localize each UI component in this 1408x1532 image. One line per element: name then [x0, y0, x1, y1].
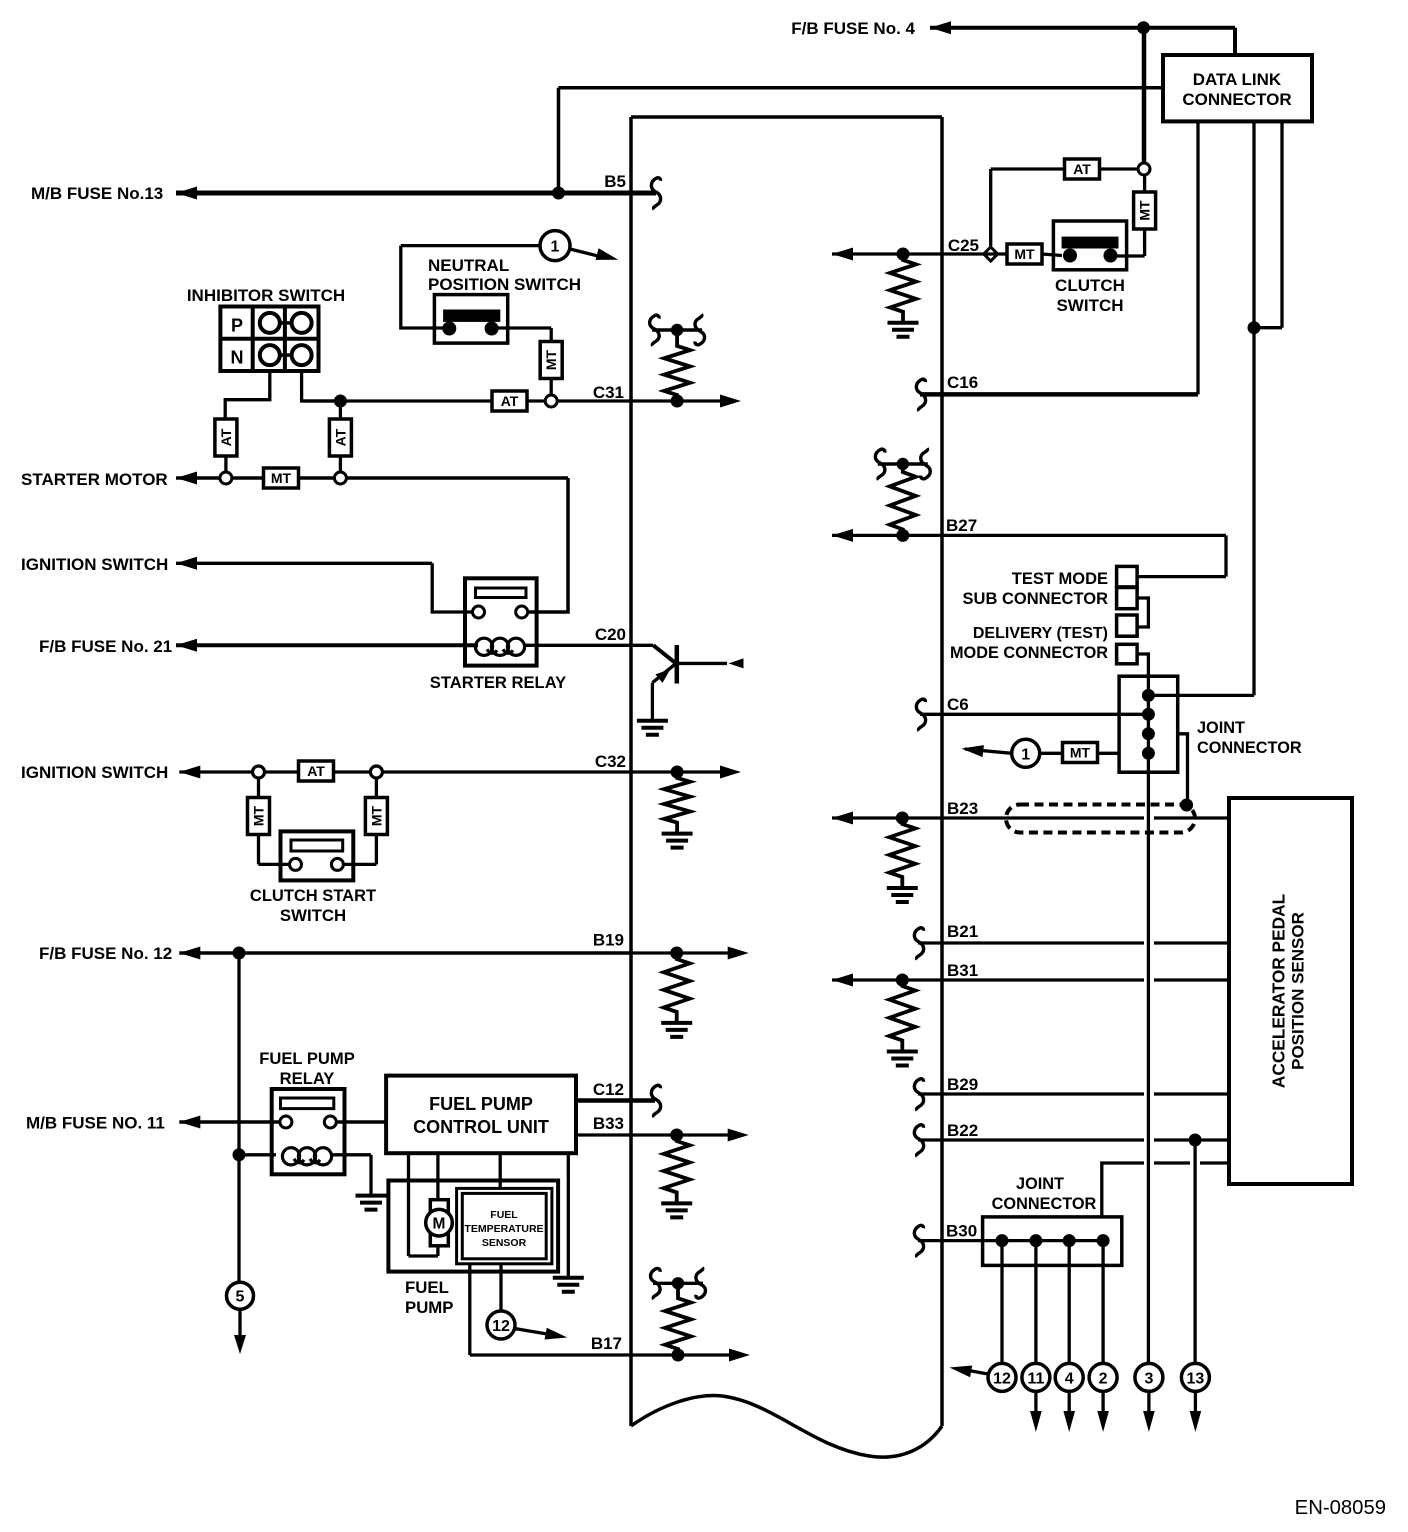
arrowhead circled-12 to ECM — [950, 1365, 973, 1377]
svg-text:B5: B5 — [604, 172, 626, 191]
wire to DATA LINK CONNECTOR — [559, 86, 1164, 90]
svg-text:3: 3 — [1144, 1370, 1153, 1387]
junction JC pin1 — [1142, 689, 1155, 702]
reference circle 3 — [1135, 1363, 1163, 1391]
connector break B21 — [914, 928, 923, 960]
wire fuse12 down to circled-5 — [237, 953, 240, 1282]
fuel pump relay contact bar — [281, 1098, 334, 1109]
junction B33 resistor — [670, 1129, 683, 1142]
wire C16 to DLC — [920, 392, 1198, 397]
ground transistor emitter — [637, 721, 668, 735]
DLC pin wire to C16 — [1196, 121, 1199, 394]
svg-text:TEST MODE: TEST MODE — [1012, 570, 1108, 588]
starter relay contact right — [516, 606, 528, 618]
ground B23 resistor — [887, 888, 918, 902]
svg-text:CONNECTOR: CONNECTOR — [992, 1195, 1097, 1213]
svg-text:FUEL: FUEL — [490, 1209, 518, 1221]
resistor C31 pull-up — [664, 330, 690, 401]
resistor C25 pull-down — [890, 254, 916, 322]
wire lower JC pin4 up — [1102, 1163, 1144, 1217]
wire to circled-2 — [1101, 1241, 1104, 1364]
joint connector (upper) box — [1119, 676, 1178, 772]
svg-text:DELIVERY (TEST): DELIVERY (TEST) — [973, 625, 1108, 642]
svg-text:C6: C6 — [947, 695, 969, 714]
svg-text:13: 13 — [1187, 1370, 1205, 1387]
arrowhead circled-13 — [1190, 1411, 1202, 1432]
wire down to C25 diamond — [989, 169, 992, 246]
svg-text:N: N — [231, 348, 244, 368]
wire down to AT — [339, 401, 342, 420]
svg-text:IGNITION SWITCH: IGNITION SWITCH — [21, 555, 168, 574]
svg-text:JOINT: JOINT — [1016, 1175, 1064, 1193]
arrowhead circled-3 — [1143, 1411, 1155, 1432]
arrowhead circled-1 (to ECM) — [595, 248, 618, 260]
wire to relay coil — [239, 1153, 276, 1156]
svg-text:11: 11 — [1027, 1370, 1044, 1387]
svg-text:CONTROL UNIT: CONTROL UNIT — [413, 1117, 549, 1137]
arrowhead F/B FUSE No.21 — [176, 639, 197, 652]
svg-text:C12: C12 — [593, 1080, 624, 1099]
wire B33 — [576, 1133, 677, 1136]
fuel pump relay coil — [282, 1148, 299, 1165]
svg-text:SENSOR: SENSOR — [482, 1237, 527, 1249]
node circle right (C32) — [370, 766, 382, 778]
connector MT (clutch start right) — [365, 798, 387, 835]
wire AT to starter motor line — [339, 456, 342, 472]
transistor base bar — [675, 645, 680, 684]
wire switch to MT — [497, 326, 551, 329]
break pair above B17 resistor — [653, 1282, 703, 1285]
junction C25 pull resistor — [897, 248, 910, 261]
svg-text:B22: B22 — [947, 1121, 978, 1140]
starter relay contact left — [473, 606, 485, 618]
wire B21 right — [1154, 941, 1229, 944]
svg-text:MODE CONNECTOR: MODE CONNECTOR — [950, 644, 1108, 662]
junction B22 to circled-13 — [1189, 1134, 1202, 1147]
svg-text:1: 1 — [551, 239, 560, 256]
starter relay contact bar — [476, 588, 527, 598]
svg-text:CLUTCH: CLUTCH — [1055, 276, 1125, 295]
inhibitor switch box — [220, 307, 318, 372]
svg-text:TEMPERATURE: TEMPERATURE — [464, 1223, 543, 1235]
reference circle 1 (neutral position switch) — [540, 231, 570, 261]
arrowhead STARTER MOTOR — [176, 472, 197, 485]
arrowhead M/B FUSE No.13 — [176, 187, 197, 200]
fuel pump relay contact left — [280, 1116, 292, 1128]
svg-text:EN-08059: EN-08059 — [1295, 1497, 1386, 1519]
break pair above B27 resistor — [878, 462, 928, 465]
svg-text:C25: C25 — [948, 236, 979, 255]
fuel pump relay contact right — [324, 1116, 336, 1128]
wire C6 to JC pin2 — [920, 713, 1148, 716]
wire B22 left — [918, 1138, 1144, 1141]
wire M/B FUSE NO.11 — [179, 1120, 280, 1124]
resistor B27 pull-up — [890, 464, 916, 535]
junction fuse12/relay coil — [233, 1148, 246, 1161]
wire B22 right — [1154, 1138, 1229, 1141]
svg-text:F/B FUSE No. 21: F/B FUSE No. 21 — [39, 637, 172, 656]
svg-text:AT: AT — [332, 428, 348, 446]
svg-text:DATA LINK: DATA LINK — [1193, 70, 1282, 89]
reference circle 12 (bottom) — [988, 1363, 1016, 1391]
junction shield drain — [1180, 799, 1193, 812]
svg-text:POSITION SENSOR: POSITION SENSOR — [1289, 912, 1308, 1070]
svg-text:5: 5 — [236, 1289, 245, 1306]
connector AT (inhibitor right) — [329, 419, 351, 456]
node circle left (C32) — [253, 766, 265, 778]
fuel pump motor — [430, 1200, 448, 1212]
arrowhead circled-12 (fuel sensor) — [545, 1328, 568, 1340]
wire F/B FUSE No.4 — [930, 26, 1235, 30]
wire inhibitor right leg — [302, 371, 334, 401]
emitter arrowhead — [655, 669, 670, 683]
svg-text:C32: C32 — [595, 752, 626, 771]
wire sensor to circled-12 — [499, 1264, 502, 1311]
transistor emitter lead — [652, 663, 676, 682]
arrowhead B23 — [832, 812, 853, 825]
wire B5 to M/B fuse No.13 — [176, 191, 656, 196]
wire F/B FUSE No.21 — [176, 643, 478, 647]
svg-text:IGNITION SWITCH: IGNITION SWITCH — [21, 763, 168, 782]
svg-text:STARTER MOTOR: STARTER MOTOR — [21, 470, 168, 489]
wire JC pin1 to DLC — [1148, 694, 1254, 697]
svg-text:12: 12 — [993, 1370, 1011, 1387]
svg-text:FUEL: FUEL — [405, 1278, 449, 1297]
svg-text:B19: B19 — [593, 931, 624, 950]
arrowhead circled-11 — [1030, 1411, 1042, 1432]
svg-text:B21: B21 — [947, 922, 978, 941]
svg-text:2: 2 — [1099, 1370, 1108, 1387]
svg-text:B23: B23 — [947, 799, 978, 818]
joint connector (lower) box — [983, 1217, 1122, 1266]
wire C31 mid — [346, 399, 492, 402]
inhibitor contact circle — [292, 313, 312, 333]
transistor collector lead — [653, 645, 676, 663]
svg-text:AT: AT — [1073, 161, 1091, 177]
junction B27 resistor — [896, 529, 909, 542]
svg-text:INHIBITOR SWITCH: INHIBITOR SWITCH — [187, 286, 345, 305]
svg-text:FUEL PUMP: FUEL PUMP — [429, 1094, 533, 1114]
svg-text:12: 12 — [492, 1318, 510, 1335]
wire to circled-4 — [1068, 1241, 1071, 1364]
delivery (test) mode connector pins — [1117, 615, 1138, 636]
connector MT (starter motor) — [264, 468, 299, 488]
wire riser from B5 to DLC line — [557, 88, 561, 193]
svg-text:FUEL PUMP: FUEL PUMP — [259, 1049, 355, 1068]
ECM connector bus box — [631, 115, 942, 119]
svg-text:B17: B17 — [591, 1334, 622, 1353]
arrowhead B33 — [728, 1129, 749, 1142]
fuel pump relay box — [272, 1089, 345, 1174]
reference circle 4 — [1055, 1363, 1083, 1391]
DLC pin wire — [1280, 121, 1283, 327]
junction DLC pins — [1248, 321, 1261, 334]
data link connector box U-DLC — [1163, 55, 1312, 121]
wire to relay contact — [432, 563, 473, 612]
arrowhead C31 — [720, 395, 741, 408]
node AT/MT split (open contact) — [1138, 163, 1150, 175]
wire JC pin3 to shield — [1178, 734, 1188, 801]
wire ignition switch 2 — [179, 770, 631, 773]
arrowhead F/B FUSE No.4 — [930, 21, 951, 34]
junction B17 resistor — [672, 1349, 685, 1362]
wire joint connector to circled-3 — [1147, 772, 1150, 1364]
fuel pump box — [388, 1181, 558, 1272]
wire FPCU to pump motor - — [407, 1153, 410, 1256]
reference circle 2 — [1089, 1363, 1117, 1391]
connector break C6 — [916, 699, 925, 731]
svg-text:AT: AT — [501, 393, 519, 409]
resistor B31 pull-down — [889, 980, 915, 1051]
arrowhead IGNITION SWITCH 2 — [179, 766, 200, 779]
svg-text:CLUTCH START: CLUTCH START — [250, 887, 376, 905]
wire drop into DLC — [1233, 28, 1237, 55]
fuel temperature sensor box — [457, 1188, 552, 1263]
wire to starter relay contact — [527, 478, 568, 612]
wire coil to ground — [331, 1153, 371, 1156]
ground C32 resistor — [662, 834, 693, 848]
svg-text:M: M — [433, 1216, 446, 1233]
accelerator pedal position sensor box — [1229, 798, 1352, 1184]
wire inhibitor P/N left leg — [225, 371, 270, 420]
wire C12 — [576, 1098, 655, 1103]
wire C31 to ECM — [557, 399, 677, 402]
wire starter motor — [176, 476, 568, 480]
svg-text:P: P — [231, 316, 243, 336]
arrowhead IGNITION SWITCH 1 — [176, 557, 197, 570]
contact circle AT left — [220, 472, 232, 484]
inhibitor contact circle — [292, 345, 312, 365]
wire B17 — [470, 1353, 678, 1356]
wire to circled-11 — [1034, 1241, 1037, 1364]
resistor B23 pull-down — [889, 818, 915, 887]
svg-text:PUMP: PUMP — [405, 1298, 453, 1317]
svg-text:M/B FUSE NO. 11: M/B FUSE NO. 11 — [26, 1114, 165, 1133]
wire through joint connector — [1147, 676, 1150, 772]
wire B27 drop — [1224, 535, 1227, 576]
svg-text:1: 1 — [1021, 746, 1030, 763]
svg-text:MT: MT — [543, 349, 559, 370]
inhibitor contact circle — [260, 345, 280, 365]
clutch start switch bar — [291, 840, 343, 851]
connector break B30 — [914, 1225, 923, 1257]
torn bottom edge of bus — [631, 1396, 942, 1458]
junction JC pin2 — [1142, 708, 1155, 721]
arrowhead F/B FUSE No.12 — [179, 947, 200, 960]
ground C25 resistor — [888, 323, 919, 337]
junction lower JC pin1 — [996, 1234, 1009, 1247]
fuel pump control unit box — [386, 1076, 576, 1154]
wire diamond to MT right — [375, 779, 378, 796]
svg-text:MT: MT — [1137, 200, 1153, 221]
contact circle AT right — [334, 472, 346, 484]
arrowhead circled-5 — [234, 1335, 246, 1354]
wire merge — [1254, 326, 1282, 329]
arrowhead B19 — [728, 947, 749, 960]
ground FPCU — [553, 1278, 584, 1292]
svg-text:MT: MT — [251, 805, 267, 826]
junction B19 resistor — [670, 947, 683, 960]
neutral position switch box — [434, 295, 507, 344]
svg-text:SWITCH: SWITCH — [1056, 296, 1123, 315]
connector MT (clutch start left) — [248, 798, 270, 835]
contact circle C31 — [545, 395, 557, 407]
junction lower JC pin2 — [1029, 1234, 1042, 1247]
svg-text:4: 4 — [1065, 1370, 1074, 1387]
junction inhibitor/C31 — [334, 395, 347, 408]
inhibitor contact circle — [260, 313, 280, 333]
reference circle 5 — [227, 1282, 254, 1309]
wire B27 — [832, 534, 1226, 537]
wire B22 to circled-13 — [1193, 1140, 1196, 1364]
junction B31 resistor — [896, 974, 909, 987]
wire circled-1 to switch — [401, 244, 540, 247]
fuse box AT (clutch circuit) — [1065, 159, 1100, 179]
connector break C12 — [651, 1085, 660, 1117]
junction F/B fuse No.4 — [1137, 21, 1150, 34]
connector MT (clutch circuit) — [1134, 192, 1156, 229]
svg-text:B33: B33 — [593, 1114, 624, 1133]
svg-text:C31: C31 — [593, 383, 624, 402]
svg-text:MT: MT — [368, 805, 384, 826]
connector MT on C25 — [1007, 244, 1042, 264]
svg-text:AT: AT — [218, 428, 234, 446]
wire B29 left — [918, 1092, 1144, 1095]
wire B21 left — [918, 941, 1144, 944]
svg-text:B27: B27 — [946, 516, 977, 535]
junction B23 resistor — [896, 812, 909, 825]
svg-text:AT: AT — [307, 763, 325, 779]
wire B23 right — [1154, 816, 1229, 819]
ground B31 resistor — [887, 1052, 918, 1066]
arrowhead B17 — [729, 1349, 750, 1362]
wire B23 left — [832, 816, 1144, 819]
break pair above C31 resistor — [652, 328, 702, 331]
reference circle 13 — [1181, 1363, 1209, 1391]
arrowhead circled-2 — [1097, 1411, 1109, 1432]
wire diamond to MT left — [257, 779, 260, 796]
wire FPCU to ground — [567, 1153, 570, 1276]
arrowhead into transistor — [729, 658, 744, 668]
DLC pin wire to joint connector — [1252, 121, 1255, 695]
svg-text:STARTER RELAY: STARTER RELAY — [430, 673, 566, 692]
resistor B17 pull-up — [665, 1283, 691, 1355]
wire fuse to AT/MT node — [1142, 28, 1147, 163]
junction JC pin4 — [1142, 747, 1155, 760]
wire F/B FUSE No.12 / B19 — [179, 951, 631, 955]
wire C25 — [832, 252, 984, 255]
svg-text:NEUTRAL: NEUTRAL — [428, 256, 509, 275]
transistor collector line — [676, 662, 727, 665]
test mode sub connector pins — [1117, 566, 1138, 587]
fuse AT (C31) — [492, 391, 527, 411]
clutch start contact left — [290, 858, 302, 870]
svg-text:B30: B30 — [946, 1222, 977, 1241]
wire to circled-12 — [1000, 1241, 1003, 1364]
svg-text:F/B FUSE No. 4: F/B FUSE No. 4 — [791, 19, 915, 38]
connector break B22 — [914, 1125, 923, 1157]
connector break B5 — [651, 178, 660, 210]
starter relay box — [465, 578, 537, 665]
connector MT on circled-1 wire — [1063, 743, 1098, 763]
junction C32 resistor — [671, 766, 684, 779]
clutch start switch box — [281, 831, 354, 880]
wire MT to clutch switch — [1143, 229, 1146, 256]
svg-text:B31: B31 — [947, 961, 978, 980]
reference circle 1 (to neutral position switch) — [1012, 739, 1040, 767]
resistor C32 pull-down — [664, 772, 690, 833]
svg-text:F/B FUSE No. 12: F/B FUSE No. 12 — [39, 944, 172, 963]
resistor B33 pull-down — [664, 1135, 690, 1202]
svg-text:SUB CONNECTOR: SUB CONNECTOR — [963, 590, 1109, 608]
junction JC pin3 — [1142, 727, 1155, 740]
arrowhead circled-4 — [1063, 1411, 1075, 1432]
wire sub connector link — [1137, 598, 1148, 627]
reference circle 12 (fuel sensor) — [487, 1311, 515, 1339]
wire C20 — [524, 644, 653, 647]
svg-text:CONNECTOR: CONNECTOR — [1182, 90, 1291, 109]
arrowhead M/B FUSE NO.11 — [179, 1116, 200, 1129]
svg-text:ACCELERATOR PEDAL: ACCELERATOR PEDAL — [1269, 893, 1289, 1088]
svg-text:B29: B29 — [947, 1075, 978, 1094]
wire AT to node — [1100, 167, 1138, 170]
junction C31 resistor — [671, 395, 684, 408]
arrowhead B27 — [832, 529, 853, 542]
junction lower JC pin3 — [1063, 1234, 1076, 1247]
junction lower JC pin4 — [1097, 1234, 1110, 1247]
wire B30 — [918, 1239, 1103, 1242]
svg-text:CONNECTOR: CONNECTOR — [1197, 739, 1302, 757]
resistor B19 pull-down — [664, 953, 690, 1022]
svg-text:C16: C16 — [947, 373, 978, 392]
shield dashed outline around B23 — [1006, 805, 1195, 833]
reference circle 11 — [1022, 1363, 1050, 1391]
svg-text:M/B FUSE No.13: M/B FUSE No.13 — [31, 184, 163, 203]
wire circled-1 to MT — [965, 749, 1012, 753]
arrowhead B31 — [832, 974, 853, 987]
svg-text:MT: MT — [271, 470, 292, 486]
svg-text:MT: MT — [1014, 246, 1035, 262]
starter relay coil — [475, 638, 492, 655]
wire FPCU to pump motor + — [436, 1153, 439, 1200]
clutch start contact right — [331, 858, 343, 870]
connector MT (neutral position) — [540, 342, 562, 379]
wire ignition switch 1 — [176, 562, 432, 565]
junction B5/riser — [552, 187, 565, 200]
svg-text:C20: C20 — [595, 625, 626, 644]
wire AT left — [991, 167, 1065, 170]
wire B29 right — [1154, 1092, 1229, 1095]
arrowhead circled-1 out — [961, 745, 984, 757]
arrowhead C25 — [832, 248, 853, 261]
wire sensor to B17 — [468, 1264, 471, 1355]
wire B31 right — [1154, 978, 1229, 981]
ground B19 resistor — [661, 1023, 692, 1037]
wire FPCU to fuel temp sensor — [499, 1153, 502, 1188]
ground fuel pump relay coil — [356, 1196, 387, 1210]
arrowhead C32 — [720, 766, 741, 779]
wire delivery connector to joint connector — [1137, 654, 1148, 676]
svg-text:MT: MT — [1070, 745, 1091, 761]
wire C31 row left — [302, 399, 335, 402]
wire relay to FPCU — [336, 1120, 386, 1124]
clutch switch — [1053, 221, 1126, 270]
connector break C16 — [916, 379, 925, 411]
svg-text:POSITION SWITCH: POSITION SWITCH — [428, 275, 581, 294]
junction fuse 12 branch — [233, 947, 246, 960]
ground B33 resistor — [661, 1203, 692, 1217]
svg-text:SWITCH: SWITCH — [280, 906, 346, 925]
